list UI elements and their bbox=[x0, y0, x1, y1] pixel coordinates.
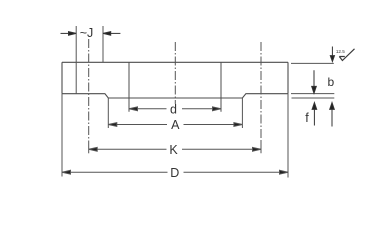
svg-text:12.5: 12.5 bbox=[336, 49, 345, 54]
bolt hole left edge bbox=[75, 26, 77, 94]
svg-text:f: f bbox=[305, 111, 309, 125]
top extension line right bbox=[291, 62, 334, 64]
svg-text:A: A bbox=[171, 118, 180, 132]
dimension D line bbox=[62, 170, 288, 174]
svg-text:D: D bbox=[170, 166, 179, 180]
bolt hole centerline left bbox=[88, 39, 90, 141]
svg-text:~J: ~J bbox=[80, 26, 94, 40]
dimension d line bbox=[129, 107, 221, 111]
flange center axis bbox=[174, 42, 176, 104]
J right extension line bbox=[102, 26, 104, 62]
bottom extension line right bbox=[291, 93, 334, 95]
svg-text:b: b bbox=[327, 75, 334, 89]
dimension J arrows bbox=[61, 32, 121, 36]
svg-text:K: K bbox=[169, 143, 178, 157]
bolt hole centerline right bbox=[260, 42, 262, 141]
dimension b arrow bbox=[312, 70, 317, 93]
dimension A line bbox=[108, 123, 242, 127]
extension line left edge down bbox=[61, 94, 63, 177]
bolt hole centerline left lower end bbox=[88, 141, 90, 153]
A left extension line bbox=[107, 98, 109, 128]
svg-text:d: d bbox=[170, 102, 177, 116]
surface roughness symbol bbox=[339, 49, 354, 61]
dimension K line bbox=[89, 147, 261, 151]
flange outline bbox=[62, 62, 288, 98]
face bottom extension line right bbox=[292, 97, 335, 99]
A right extension line bbox=[241, 98, 243, 128]
roughness leader arrow bbox=[330, 47, 334, 62]
bore left edge bbox=[128, 62, 130, 112]
bore right edge bbox=[220, 62, 222, 112]
bolt hole centerline right lower end bbox=[260, 141, 262, 153]
extension line right edge down bbox=[287, 94, 289, 178]
dimension f arrows bbox=[312, 103, 334, 127]
